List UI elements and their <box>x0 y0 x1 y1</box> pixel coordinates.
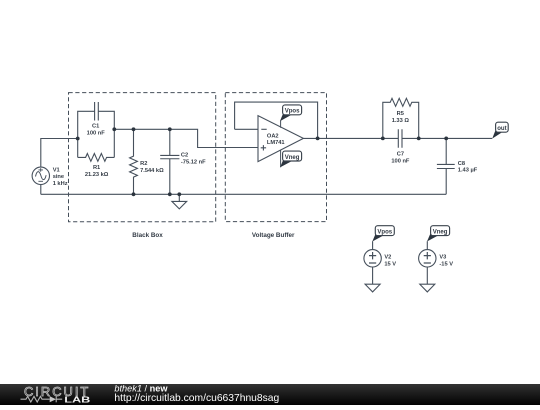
svg-text:OA2: OA2 <box>267 133 279 139</box>
svg-text:LM741: LM741 <box>267 140 285 146</box>
svg-text:1 kHz: 1 kHz <box>53 181 68 187</box>
svg-text:R1: R1 <box>93 165 100 171</box>
svg-text:-15 V: -15 V <box>439 261 453 267</box>
svg-text:C8: C8 <box>458 161 465 167</box>
svg-text:Black Box: Black Box <box>132 232 163 239</box>
svg-text:V3: V3 <box>439 254 446 260</box>
svg-text:http://circuitlab.com/cu6637hn: http://circuitlab.com/cu6637hnu8sag <box>114 393 279 404</box>
svg-text:Vneg: Vneg <box>285 155 300 161</box>
svg-text:-75.12 nF: -75.12 nF <box>181 160 206 166</box>
svg-text:Vpos: Vpos <box>377 230 392 236</box>
svg-text:V2: V2 <box>384 254 391 260</box>
svg-text:V1: V1 <box>53 167 60 173</box>
svg-text:sine: sine <box>53 174 64 180</box>
svg-text:C1: C1 <box>92 124 99 130</box>
svg-text:100 nF: 100 nF <box>87 130 106 136</box>
svg-text:1.43 µF: 1.43 µF <box>458 167 478 173</box>
svg-text:C2: C2 <box>181 153 188 159</box>
svg-text:21.23 kΩ: 21.23 kΩ <box>85 172 109 178</box>
svg-text:R5: R5 <box>397 111 404 117</box>
svg-text:1.33 Ω: 1.33 Ω <box>392 118 410 124</box>
svg-text:Voltage Buffer: Voltage Buffer <box>252 232 295 239</box>
svg-text:7.544 kΩ: 7.544 kΩ <box>140 168 164 174</box>
svg-text:out: out <box>497 126 506 132</box>
svg-text:R2: R2 <box>140 161 147 167</box>
svg-text:15 V: 15 V <box>384 261 396 267</box>
svg-text:C7: C7 <box>397 152 404 158</box>
svg-text:LAB: LAB <box>64 395 90 405</box>
svg-text:Vpos: Vpos <box>285 109 300 115</box>
svg-text:100 nF: 100 nF <box>391 159 410 165</box>
svg-text:Vneg: Vneg <box>433 230 448 236</box>
